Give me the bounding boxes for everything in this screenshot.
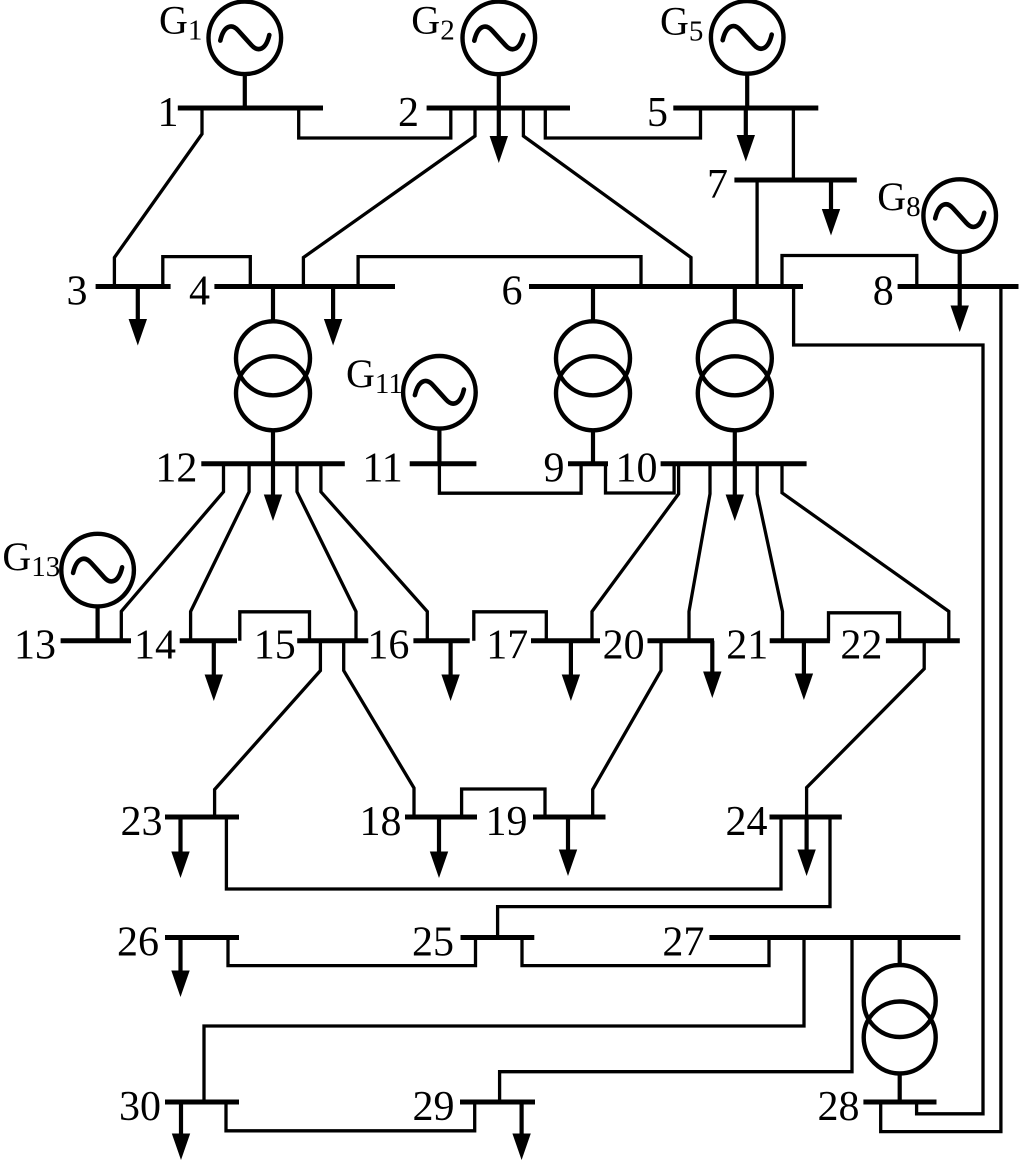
bus 26 (165, 935, 239, 940)
wire xfmr 27-28 stem top (898, 938, 902, 967)
bus 10 (661, 461, 807, 466)
svg-text:1: 1 (158, 90, 179, 136)
load bus 21 (795, 641, 813, 700)
svg-text:24: 24 (726, 799, 768, 845)
wire line 15-23 (215, 641, 321, 817)
wire G1 stem (243, 75, 247, 109)
wire line 27-29 (500, 938, 852, 1103)
wire G11 stem (437, 429, 441, 464)
svg-text:29: 29 (413, 1084, 455, 1130)
load bus 20 (703, 641, 721, 698)
bus 19 (533, 815, 606, 820)
wire G8 stem (958, 253, 962, 287)
bus 9 (568, 461, 608, 466)
wire line 23-24 (226, 817, 781, 889)
wire line 6-28 (794, 287, 983, 1114)
wire line 12-16 (321, 464, 427, 641)
bus 28 (863, 1100, 936, 1105)
bus 14 (180, 638, 237, 643)
svg-text:19: 19 (486, 799, 528, 845)
svg-text:11: 11 (362, 446, 402, 492)
load bus 30 (172, 1102, 190, 1160)
wire line 21-22 (829, 613, 900, 641)
svg-text:20: 20 (603, 623, 645, 669)
svg-text:8: 8 (873, 269, 894, 315)
svg-text:27: 27 (662, 920, 704, 966)
wire line 12-13 (121, 464, 223, 641)
wire line 26-25 (228, 938, 476, 966)
svg-text:13: 13 (14, 623, 56, 669)
wire line 19-20 (593, 641, 661, 817)
wire line 10-20 (689, 464, 710, 641)
load bus 19 (559, 817, 577, 876)
wire xfmr 6-9 stem top (591, 287, 595, 323)
wire line 1-2 (299, 108, 451, 138)
bus 20 (648, 638, 715, 643)
load bus 26 (171, 938, 189, 998)
wire G5 stem (745, 74, 749, 108)
load bus 2 (490, 108, 508, 163)
wire line 18-19 (462, 789, 545, 817)
transformer T6-10 (698, 321, 772, 430)
wire xfmr 4-12 stem bottom (271, 429, 275, 464)
wire line 16-17 (474, 612, 547, 641)
bus 1 (178, 106, 323, 111)
svg-text:15: 15 (254, 623, 296, 669)
bus 12 (201, 461, 344, 466)
svg-text:14: 14 (134, 623, 176, 669)
wire line 10-22 (782, 464, 949, 641)
svg-text:2: 2 (398, 90, 419, 136)
svg-text:9: 9 (544, 446, 565, 492)
load bus 3 (129, 287, 147, 346)
load bus 4 (324, 287, 342, 346)
bus 8 (898, 284, 1019, 289)
wire line 8-28 (881, 287, 1001, 1132)
wire line 10-17 (592, 464, 679, 641)
svg-text:4: 4 (189, 269, 210, 315)
bus 6 (529, 284, 803, 289)
svg-text:28: 28 (818, 1084, 860, 1130)
bus 16 (413, 638, 469, 643)
svg-text:30: 30 (119, 1084, 161, 1130)
bus 25 (461, 935, 535, 940)
load bus 16 (441, 641, 459, 701)
load bus 29 (512, 1102, 530, 1160)
generator G1 (209, 2, 282, 75)
load bus 24 (797, 817, 815, 876)
transformer T4-12 (236, 321, 310, 430)
bus 17 (531, 638, 600, 643)
bus 2 (427, 106, 570, 111)
bus 29 (460, 1100, 535, 1105)
bus 15 (297, 638, 368, 643)
wire line 10-21 (757, 464, 782, 641)
svg-text:25: 25 (412, 920, 454, 966)
svg-text:12: 12 (155, 446, 197, 492)
wire line 1-3 (114, 108, 202, 287)
wire line 2-5 (545, 108, 700, 138)
svg-text:26: 26 (117, 920, 159, 966)
wire xfmr 6-10 stem bottom (733, 429, 737, 464)
svg-text:10: 10 (616, 446, 658, 492)
generator G8 (923, 179, 996, 252)
load bus 8 (951, 287, 969, 333)
generator G11 (403, 356, 476, 429)
wire xfmr 4-12 stem top (271, 287, 275, 323)
wire line 2-6 (523, 108, 691, 287)
bus 21 (770, 638, 830, 643)
wire line 9-10 (606, 464, 675, 493)
generator G13 (61, 534, 134, 607)
load bus 12 (264, 464, 282, 521)
svg-text:21: 21 (726, 623, 768, 669)
wire line 14-15 (240, 612, 310, 641)
wire line 4-6 (358, 257, 641, 287)
bus 23 (165, 815, 239, 820)
load bus 23 (171, 817, 189, 878)
bus 24 (770, 815, 842, 820)
bus 22 (886, 638, 960, 643)
wire line 9-11 (439, 464, 581, 494)
bus 4 (214, 284, 395, 289)
wire xfmr 6-9 stem bottom (591, 429, 595, 464)
wire line 6-8 (782, 256, 917, 287)
generator G2 (463, 2, 536, 75)
wire line 12-14 (191, 464, 250, 641)
wire line 3-4 (163, 257, 251, 287)
wire G13 stem (95, 607, 99, 641)
bus 3 (96, 284, 171, 289)
wire line 5-7 (792, 108, 795, 180)
wire line 25-27 (522, 938, 769, 966)
svg-text:5: 5 (647, 90, 668, 136)
wire G2 stem (497, 75, 501, 108)
wire xfmr 27-28 stem bottom (898, 1073, 902, 1103)
svg-text:7: 7 (707, 162, 728, 208)
wire line 2-4 (303, 108, 475, 287)
svg-text:16: 16 (367, 623, 409, 669)
bus 11 (410, 461, 477, 466)
load bus 7 (822, 180, 840, 236)
svg-text:6: 6 (502, 269, 523, 315)
svg-text:18: 18 (360, 799, 402, 845)
wire line 29-30 (226, 1102, 475, 1131)
bus 13 (61, 638, 131, 643)
bus 18 (405, 815, 477, 820)
wire line 24-25 (498, 817, 830, 938)
wire line 15-18 (344, 641, 414, 817)
bus 27 (709, 935, 960, 940)
transformer T6-9 (556, 321, 630, 430)
bus 7 (734, 178, 856, 183)
wire line 7-6 (755, 180, 758, 287)
wire line 27-30 (204, 938, 804, 1103)
bus 30 (165, 1100, 239, 1105)
wire line 12-15 (297, 464, 356, 641)
load bus 5 (737, 108, 755, 162)
svg-text:3: 3 (67, 269, 88, 315)
bus 5 (673, 106, 818, 111)
svg-text:22: 22 (840, 623, 882, 669)
transformer T27-28 (864, 965, 936, 1074)
load bus 14 (205, 641, 223, 701)
svg-text:17: 17 (486, 623, 528, 669)
generator G5 (711, 1, 784, 74)
load bus 18 (430, 817, 448, 878)
svg-text:23: 23 (121, 799, 163, 845)
wire line 22-24 (807, 641, 925, 817)
load bus 10 (726, 464, 744, 521)
load bus 17 (562, 641, 580, 701)
wire xfmr 6-10 stem top (733, 287, 737, 323)
